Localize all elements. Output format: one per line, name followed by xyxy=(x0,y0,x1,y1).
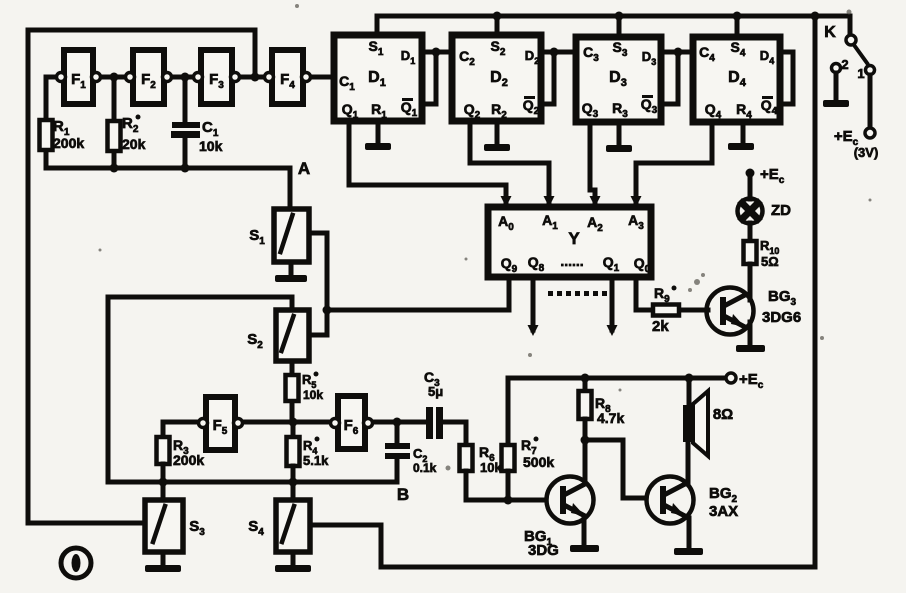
svg-text:ZD: ZD xyxy=(771,202,791,219)
svg-text:2k: 2k xyxy=(652,318,669,335)
svg-text:B: B xyxy=(397,485,409,504)
svg-text:10k: 10k xyxy=(303,388,323,402)
svg-text:10k: 10k xyxy=(480,460,502,475)
svg-text:8Ω: 8Ω xyxy=(713,406,733,423)
svg-text:1: 1 xyxy=(857,66,864,81)
svg-text:4.7k: 4.7k xyxy=(597,410,624,426)
svg-text:A: A xyxy=(298,159,310,178)
svg-text:500k: 500k xyxy=(523,454,554,470)
svg-text:3AX: 3AX xyxy=(709,503,738,520)
svg-text:10k: 10k xyxy=(199,138,223,154)
svg-text:2: 2 xyxy=(841,57,848,72)
svg-text:......: ...... xyxy=(560,253,583,269)
svg-text:200k: 200k xyxy=(173,452,204,468)
svg-text:20k: 20k xyxy=(122,136,146,152)
svg-text:5Ω: 5Ω xyxy=(761,254,779,269)
svg-text:5.1k: 5.1k xyxy=(303,453,329,468)
svg-text:3DG: 3DG xyxy=(528,542,559,559)
svg-text:200k: 200k xyxy=(53,135,84,151)
svg-text:Y: Y xyxy=(568,229,580,248)
svg-text:0.1k: 0.1k xyxy=(413,461,437,475)
svg-text:(3V): (3V) xyxy=(854,145,879,160)
svg-text:3DG6: 3DG6 xyxy=(762,309,801,326)
svg-text:5μ: 5μ xyxy=(428,384,443,399)
svg-text:K: K xyxy=(824,24,836,41)
